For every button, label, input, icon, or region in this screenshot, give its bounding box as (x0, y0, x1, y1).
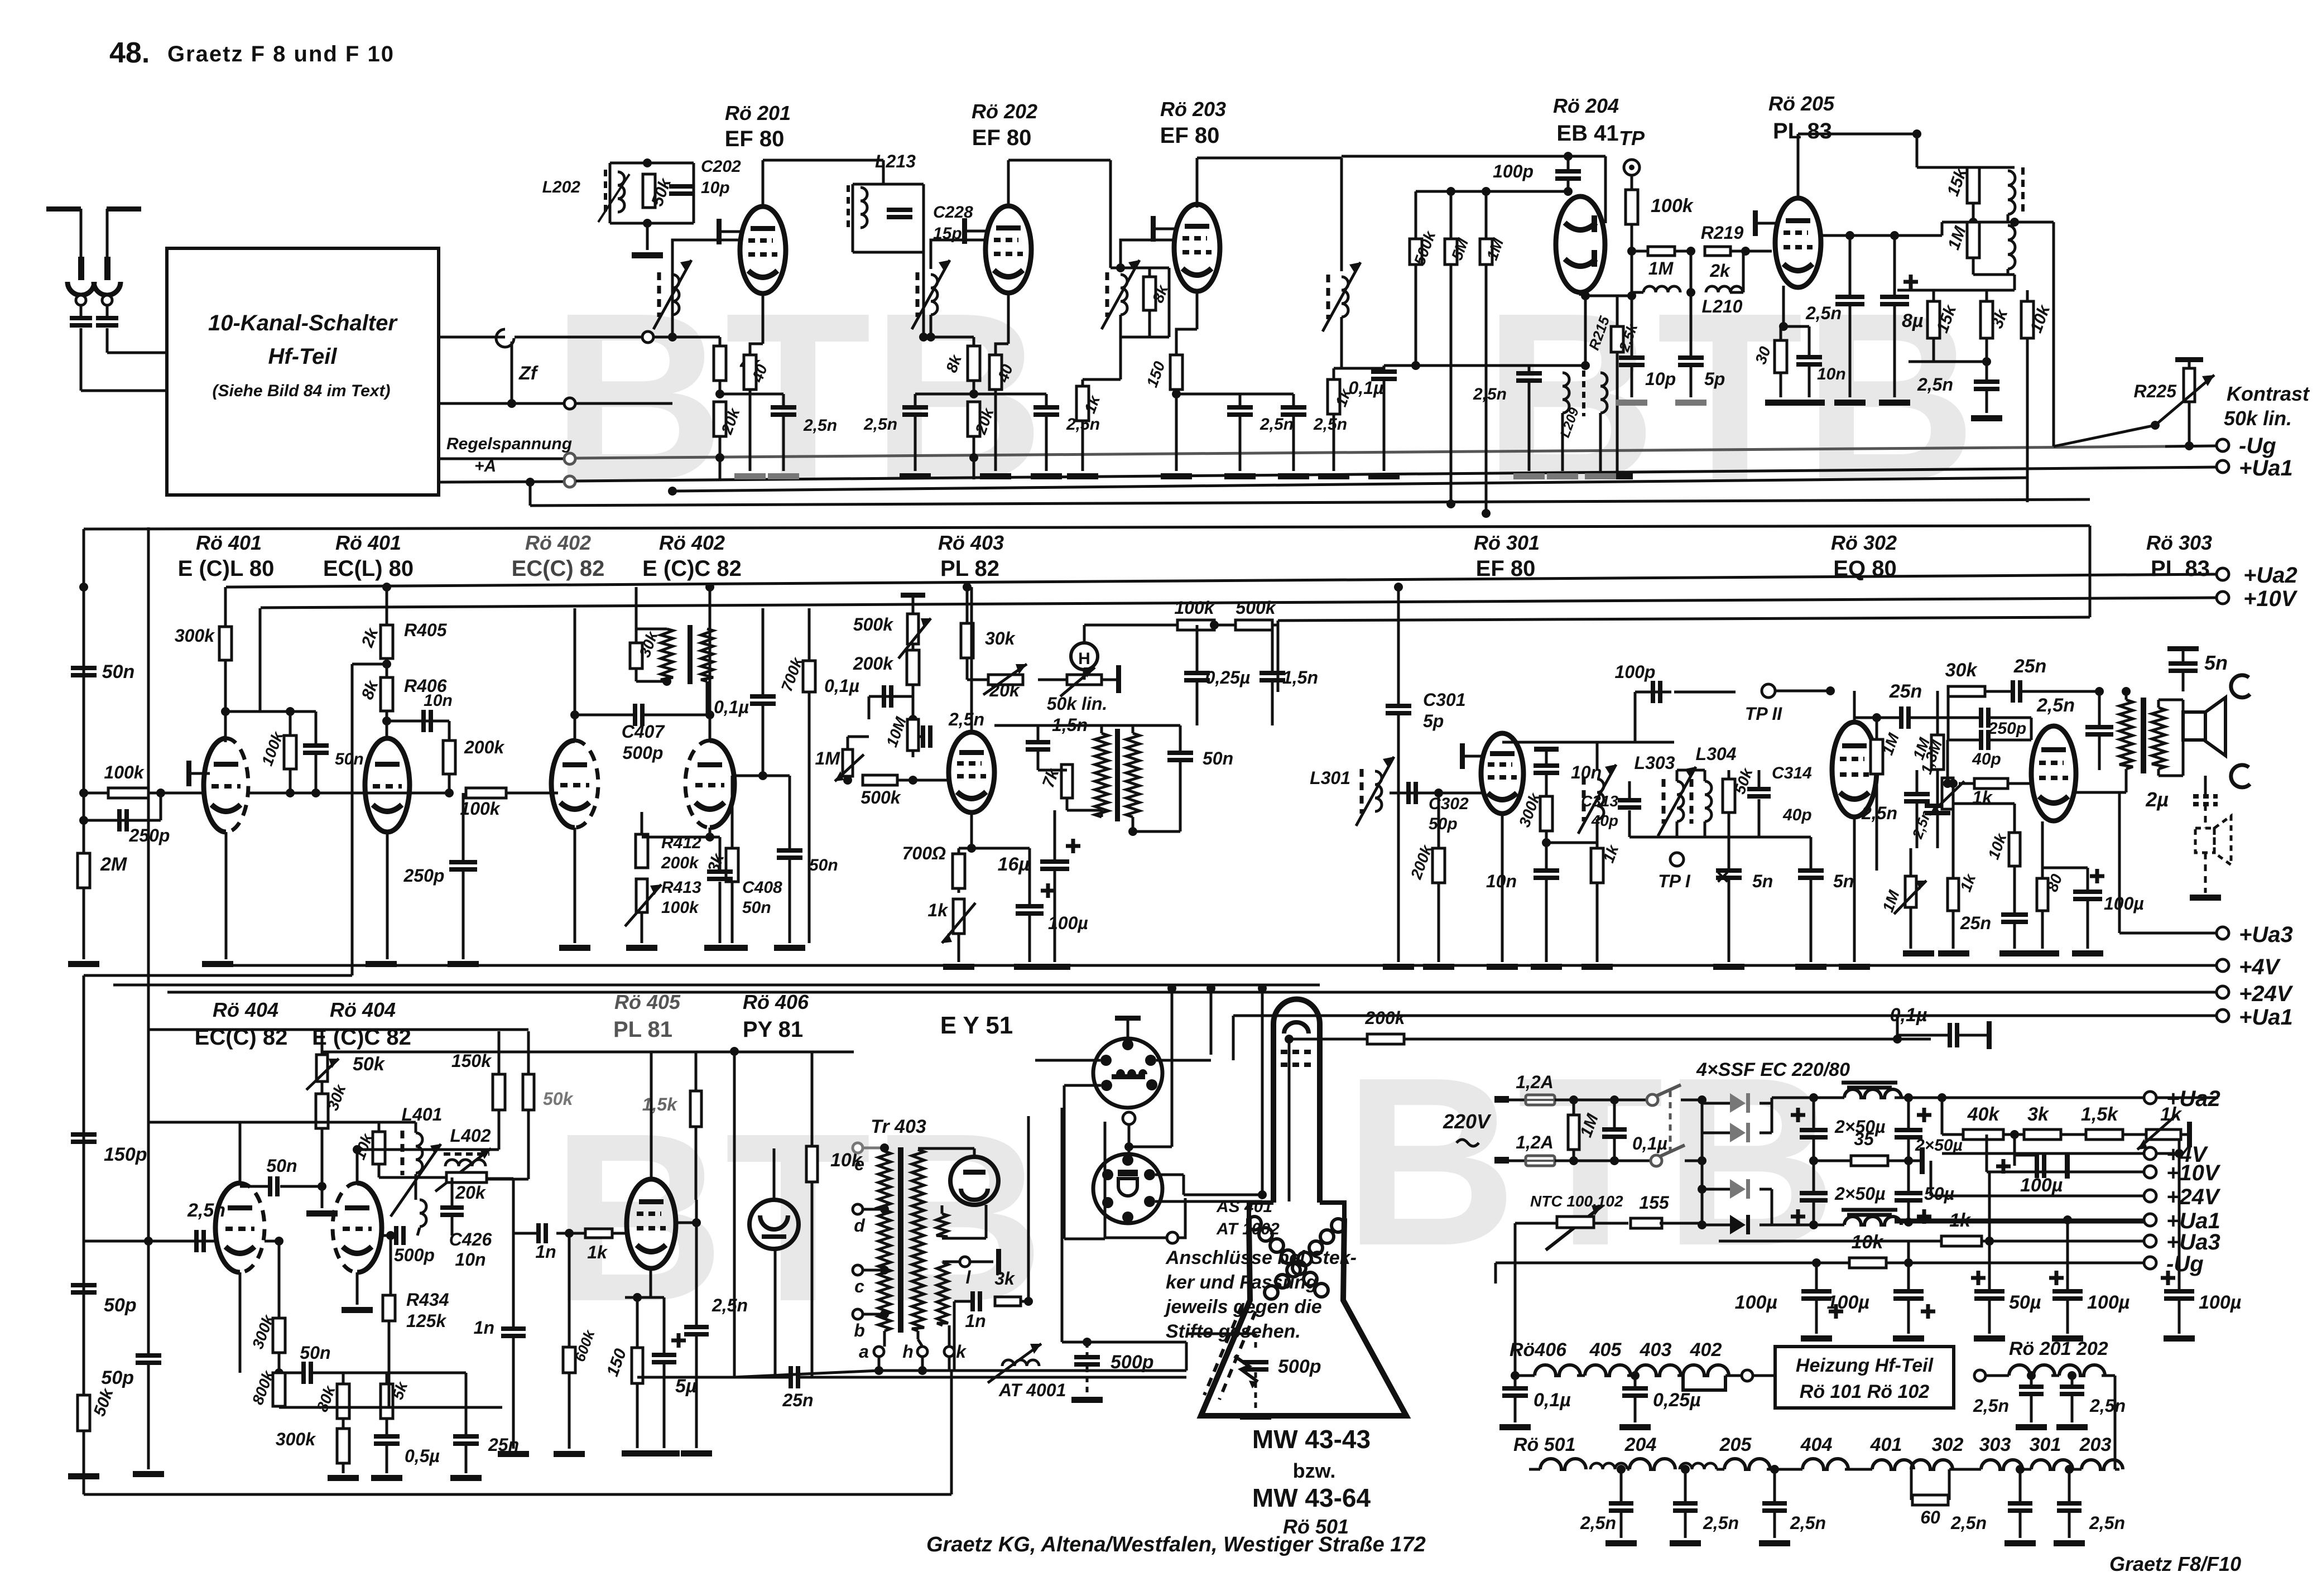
svg-text:2k: 2k (1709, 261, 1731, 281)
svg-text:Tr 403: Tr 403 (871, 1116, 926, 1137)
svg-text:40p: 40p (1782, 806, 1812, 824)
svg-text:1,5k: 1,5k (642, 1094, 678, 1114)
svg-text:1M: 1M (1648, 258, 1674, 278)
top wires 404 (322, 1051, 854, 1054)
svg-text:500k: 500k (853, 614, 894, 634)
divider 40k 3k 1,5k 1k (1938, 1093, 1946, 1102)
svg-text:L303: L303 (1635, 753, 1675, 773)
svg-text:0,1µ: 0,1µ (1534, 1390, 1571, 1411)
svg-text:2,5n: 2,5n (1473, 385, 1507, 403)
svg-text:Zf: Zf (518, 363, 539, 384)
terminal +Ua3 (2118, 792, 2121, 933)
svg-text:H: H (1078, 650, 1090, 668)
grid stub Rö201 (717, 219, 722, 244)
resistor 30k PL82 (966, 587, 969, 623)
resistors 15k 3k 10k (1897, 289, 2015, 292)
svg-text:100k: 100k (1174, 598, 1215, 618)
svg-text:40k: 40k (1967, 1104, 2001, 1125)
socket 2 (1093, 1154, 1162, 1223)
svg-text:100k: 100k (460, 799, 501, 819)
svg-text:100k: 100k (661, 898, 699, 917)
svg-text:+24V: +24V (2166, 1185, 2221, 1209)
cap 0,25µ heater (1631, 1371, 1640, 1380)
svg-text:10n: 10n (424, 691, 453, 710)
sockets (1093, 1039, 1162, 1108)
svg-text:8µ: 8µ (1902, 310, 1924, 331)
svg-text:200k: 200k (464, 737, 505, 757)
svg-text:1M: 1M (815, 748, 841, 768)
svg-text:Rö 401: Rö 401 (196, 531, 262, 554)
cathode resistor 40 (762, 294, 765, 344)
anode wiring Rö203 (1196, 158, 1199, 208)
svg-text:405: 405 (1589, 1339, 1622, 1361)
EB41 left drop (1340, 158, 1343, 271)
svg-text:50k: 50k (543, 1089, 574, 1109)
inner rail and 50p (148, 1028, 528, 1031)
resistor 4k (668, 333, 677, 342)
svg-text:10-Kanal-Schalter: 10-Kanal-Schalter (208, 311, 398, 335)
caps 2,5n heater1 (2027, 1371, 2036, 1380)
svg-text:1n: 1n (965, 1311, 986, 1331)
svg-text:205: 205 (1719, 1434, 1752, 1455)
cap 2,5n stage2b (1045, 394, 1048, 405)
svg-text:60: 60 (1920, 1507, 1940, 1527)
svg-text:C407: C407 (622, 722, 666, 742)
cap 500p dashed (1243, 1360, 1268, 1364)
svg-text:Rö 201: Rö 201 (725, 102, 791, 124)
svg-text:5p: 5p (1423, 711, 1444, 731)
svg-text:EQ 80: EQ 80 (1833, 556, 1896, 581)
svg-text:bzw.: bzw. (1293, 1459, 1336, 1482)
blocking transformer (1095, 733, 1108, 817)
R412 R413 C408 (641, 812, 643, 834)
svg-text:250p: 250p (403, 866, 445, 886)
svg-text:EC(L) 80: EC(L) 80 (323, 556, 414, 581)
pot 1M audio (1905, 876, 1916, 907)
grounds 300 left (1501, 814, 1504, 962)
svg-text:2,5n: 2,5n (1861, 803, 1897, 823)
resistors 100k 500k top (1084, 624, 1278, 627)
resistor 100k TP (1626, 190, 1638, 224)
grid tank Rö201 (671, 269, 674, 337)
terminal l (960, 1257, 970, 1267)
resistor 300k 404 (278, 1241, 281, 1318)
svg-text:50n: 50n (809, 856, 838, 874)
caps 2,5n heater2 (1617, 1465, 1626, 1474)
svg-text:L301: L301 (1310, 768, 1350, 788)
resistor 1k 300 (1596, 843, 1599, 848)
svg-text:403: 403 (1640, 1339, 1672, 1361)
svg-text:10k: 10k (1852, 1232, 1885, 1253)
svg-text:25n: 25n (2013, 656, 2047, 677)
+10V psu line (1986, 1134, 1988, 1172)
svg-text:C408: C408 (742, 878, 782, 897)
svg-text:Graetz KG, Altena/Westfalen, W: Graetz KG, Altena/Westfalen, Westiger St… (926, 1533, 1426, 1556)
terminal +4V (204, 964, 2217, 967)
resistor 10k PY81 (806, 1146, 818, 1182)
grid line Rö401b (248, 792, 449, 795)
svg-text:b: b (854, 1320, 865, 1340)
svg-text:1,2A: 1,2A (1516, 1132, 1554, 1152)
svg-text:50n: 50n (102, 661, 135, 682)
resistor 3k 402 (732, 775, 763, 777)
resistor 1M horizontal (1632, 250, 1648, 253)
svg-text:200k: 200k (661, 854, 699, 872)
pot R225 Kontrast (2175, 357, 2203, 362)
R405 2k (386, 587, 388, 625)
svg-text:2M: 2M (100, 854, 127, 875)
svg-text:2,5n: 2,5n (1790, 1513, 1826, 1533)
svg-text:l: l (966, 1267, 972, 1287)
svg-text:0,1µ: 0,1µ (824, 676, 859, 696)
cap 250p (84, 819, 161, 822)
tube Rö401b (365, 738, 410, 832)
svg-text:Rö 404: Rö 404 (213, 998, 278, 1021)
svg-text:3k: 3k (2027, 1104, 2050, 1125)
right top network 15k/1M coils (1916, 134, 1919, 167)
block 10-Kanal-Schalter Hf-Teil (167, 248, 439, 495)
svg-text:C313: C313 (1581, 792, 1618, 810)
resistor 10M (907, 719, 919, 751)
terminal +Ua1 (2217, 460, 2229, 473)
svg-text:1k: 1k (587, 1242, 608, 1262)
svg-text:1k: 1k (927, 900, 949, 920)
svg-text:100µ: 100µ (1827, 1292, 1869, 1313)
wire Zf lower (439, 402, 564, 405)
+24V psu line (1930, 1161, 1933, 1196)
svg-text:303: 303 (1979, 1434, 2011, 1455)
500p coupling 404b (386, 1231, 395, 1240)
svg-text:R405: R405 (404, 620, 448, 640)
svg-text:R413: R413 (661, 878, 701, 897)
svg-text:200k: 200k (853, 653, 894, 674)
TPI and TPII (1670, 853, 1684, 866)
cap 10n coupling (382, 717, 391, 725)
pot 20k (967, 679, 1023, 681)
svg-text:20k: 20k (455, 1182, 487, 1203)
implosion dashes (1204, 1306, 1242, 1395)
svg-text:2,5n: 2,5n (1805, 303, 1842, 323)
cap 100p (1567, 156, 1570, 169)
caps 5n row (1728, 837, 1730, 868)
svg-text:c: c (854, 1276, 864, 1296)
tube Rö404b (357, 1183, 382, 1272)
svg-text:h: h (902, 1342, 914, 1362)
svg-text:Rö 205: Rö 205 (1768, 92, 1835, 115)
svg-text:700Ω: 700Ω (902, 843, 946, 863)
svg-text:50n: 50n (742, 898, 771, 917)
svg-text:0,25µ: 0,25µ (1653, 1390, 1701, 1411)
svg-text:30k: 30k (1945, 660, 1978, 681)
cathode 40 Rö202 (1007, 294, 1010, 344)
C302 50p (1390, 792, 1429, 795)
output transformer (2119, 700, 2133, 769)
svg-text:500p: 500p (394, 1245, 435, 1265)
mains switch (1647, 1094, 1658, 1105)
svg-text:EF 80: EF 80 (1476, 556, 1536, 581)
svg-text:204: 204 (1624, 1434, 1657, 1455)
pot 50k 404 (316, 1055, 328, 1081)
svg-text:(Siehe Bild 84 im Text): (Siehe Bild 84 im Text) (213, 382, 391, 400)
svg-text:+24V: +24V (2239, 982, 2294, 1006)
svg-text:25n: 25n (1960, 913, 1991, 933)
svg-text:+Ua3: +Ua3 (2166, 1230, 2220, 1254)
wires 300 left (1397, 587, 1400, 704)
tube Rö302 EQ80 (1832, 722, 1877, 817)
antenna 2 (107, 206, 141, 211)
svg-text:50k: 50k (353, 1054, 386, 1075)
svg-text:100µ: 100µ (2087, 1292, 2129, 1313)
NTC line (1514, 1223, 1517, 1376)
svg-text:2,5n: 2,5n (2089, 1513, 2125, 1533)
svg-text:Heizung Hf-Teil: Heizung Hf-Teil (1796, 1355, 1934, 1376)
bottom rail 404 (278, 1406, 281, 1407)
tube Rö402a (551, 741, 575, 828)
resistor 35 (1814, 1160, 1851, 1162)
svg-text:-Ug: -Ug (2166, 1252, 2204, 1276)
long return wire 3 (672, 478, 2027, 491)
cap 0,1µ (1383, 366, 1386, 369)
osc transformer 30k (635, 587, 638, 643)
cap 250p lower (462, 793, 465, 860)
svg-text:2,5n: 2,5n (948, 709, 984, 729)
svg-text:30k: 30k (985, 628, 1016, 648)
speaker (2183, 712, 2205, 740)
feedback wire to lower section (352, 663, 387, 666)
svg-text:100k: 100k (104, 762, 145, 782)
AT4001 (1002, 1360, 1039, 1366)
anode wiring Rö202 (1007, 160, 1010, 208)
svg-text:2,5n: 2,5n (1973, 1396, 2009, 1416)
svg-text:E (C)L 80: E (C)L 80 (178, 556, 275, 581)
svg-text:20k: 20k (989, 680, 1021, 700)
svg-text:L304: L304 (1696, 744, 1737, 764)
svg-text:40p: 40p (1591, 812, 1618, 829)
socket2 loop (1105, 1122, 1185, 1238)
svg-text:k: k (956, 1342, 967, 1362)
svg-text:1k: 1k (2160, 1104, 2183, 1125)
tube Rö402b (710, 741, 734, 828)
resistor 1M psu (1569, 1095, 1578, 1104)
resistor 20k (714, 402, 726, 436)
resistor 200k (448, 721, 451, 741)
svg-text:3k: 3k (994, 1268, 1016, 1289)
svg-text:C426: C426 (449, 1229, 492, 1249)
tube Rö404a (215, 1183, 240, 1272)
Tr403 terminals (853, 1143, 863, 1153)
wire Zf output (439, 336, 505, 339)
caps 150p 50p 50k left column (71, 1132, 97, 1137)
tube Rö303 PL83 audio (2031, 726, 2076, 821)
svg-text:Rö 204: Rö 204 (1553, 94, 1619, 117)
svg-text:Rö 301: Rö 301 (1474, 531, 1540, 554)
svg-text:L213: L213 (875, 151, 916, 171)
svg-text:L210: L210 (1702, 296, 1743, 316)
antenna 1 (46, 206, 81, 211)
rectifier diodes (1701, 1100, 1704, 1225)
dashed speaker (2195, 828, 2214, 853)
svg-text:100µ: 100µ (1735, 1292, 1777, 1313)
speaker clips (2231, 675, 2250, 698)
tube Rö403 PL82 (949, 732, 994, 813)
cap 5n top (2167, 646, 2199, 651)
svg-text:150k: 150k (451, 1051, 492, 1071)
resistor 1k stage3 (1333, 368, 1335, 379)
picture tube MW43 (1273, 999, 1320, 1203)
tube Rö401a ECL80 (204, 738, 226, 832)
svg-text:1,2A: 1,2A (1516, 1072, 1554, 1092)
svg-text:C302: C302 (1429, 795, 1469, 813)
svg-text:5n: 5n (1752, 871, 1773, 891)
svg-text:EF 80: EF 80 (972, 126, 1032, 150)
cap 0,1µ 402 (762, 608, 765, 694)
bus +Ua2 (226, 574, 2218, 587)
svg-text:2,5n: 2,5n (1917, 374, 1953, 395)
cap 2x50µ 2 (1904, 1093, 1913, 1102)
cap 0,5µ (374, 1434, 400, 1439)
top wire EB41 (1342, 155, 1605, 158)
caps 250p 40p (1948, 717, 1979, 719)
-Ug psu line (1496, 1262, 2145, 1265)
left column 50n 2M (79, 583, 88, 592)
svg-text:Hf-Teil: Hf-Teil (268, 344, 338, 369)
svg-text:E (C)C 82: E (C)C 82 (642, 556, 742, 581)
grounds 402 (574, 828, 576, 943)
svg-text:MW 43-43: MW 43-43 (1252, 1425, 1371, 1454)
svg-text:2,5n: 2,5n (712, 1295, 748, 1315)
20k 404 (446, 1172, 487, 1182)
resistor 300k bottom (337, 1429, 349, 1463)
svg-text:25n: 25n (782, 1390, 813, 1410)
svg-text:0,1µ: 0,1µ (1890, 1004, 1927, 1026)
svg-text:500p: 500p (623, 743, 664, 763)
svg-text:PL 83: PL 83 (1773, 119, 1832, 143)
neck shoulders (1249, 1203, 1344, 1218)
C426 10n (440, 1205, 464, 1210)
coil L210 (1690, 251, 1693, 292)
cap 2,5n right300 (1925, 804, 1950, 808)
PL82 cathode (970, 813, 973, 848)
tube Rö301 EF80 (1481, 733, 1523, 814)
H circle (1071, 643, 1098, 670)
svg-text:250p: 250p (129, 825, 170, 845)
svg-text:+4V: +4V (2239, 955, 2281, 979)
svg-text:401: 401 (1870, 1434, 1902, 1455)
resistor 1k audio horiz (1943, 779, 1952, 788)
svg-text:50n: 50n (266, 1156, 297, 1176)
cap 1,5n + 7k + transformer (994, 724, 1180, 727)
svg-text:50p: 50p (1429, 815, 1458, 833)
svg-text:50k lin.: 50k lin. (1047, 694, 1108, 714)
600k resistor (568, 1233, 571, 1347)
1n vert cap (512, 1233, 515, 1326)
svg-text:100µ: 100µ (2020, 1175, 2063, 1196)
cap 25n 2 (2011, 680, 2015, 703)
150k 50k 404 right (493, 1074, 505, 1110)
svg-text:0,1µ: 0,1µ (714, 697, 749, 717)
svg-text:200k: 200k (1364, 1008, 1406, 1028)
resistor 300k (224, 587, 227, 627)
svg-text:C314: C314 (1772, 764, 1812, 782)
svg-text:100µ: 100µ (2104, 893, 2144, 914)
svg-text:a: a (859, 1342, 869, 1362)
svg-text:Kontrast: Kontrast (2227, 382, 2310, 405)
pot 50k lin (1038, 679, 1116, 681)
cathode parts Rö203 (1196, 291, 1199, 329)
R406 8k (386, 658, 388, 677)
cap 25n audio gnd (2001, 912, 2028, 917)
svg-text:2,5n: 2,5n (1313, 415, 1347, 434)
svg-text:Anschlüsse bei Stek-: Anschlüsse bei Stek- (1165, 1247, 1357, 1268)
+Ua1 psu line (1895, 1219, 2145, 1222)
cap 25n 404 (465, 1373, 468, 1434)
svg-text:EB 41: EB 41 (1556, 121, 1618, 146)
svg-text:10p: 10p (701, 179, 730, 197)
cap 2x50µ 3 (1813, 1161, 1815, 1191)
svg-text:+Ua3: +Ua3 (2239, 922, 2293, 947)
cap 2,5n audio (2098, 691, 2101, 725)
svg-text:C202: C202 (701, 157, 741, 176)
svg-text:EC(C) 82: EC(C) 82 (512, 556, 605, 581)
svg-text:+Ua2: +Ua2 (2243, 563, 2297, 588)
svg-text:404: 404 (1800, 1434, 1833, 1455)
svg-text:25n: 25n (1889, 681, 1922, 702)
svg-text:500k: 500k (861, 787, 901, 807)
svg-text:100k: 100k (1651, 195, 1694, 217)
svg-text:R219: R219 (1701, 223, 1744, 243)
svg-text:300k: 300k (276, 1429, 316, 1449)
svg-text:Rö 401: Rö 401 (335, 531, 401, 554)
socket1 wires (1035, 1059, 1100, 1062)
svg-text:Rö 201 202: Rö 201 202 (2009, 1338, 2108, 1359)
svg-text:PL 83: PL 83 (2151, 556, 2210, 581)
svg-text:Rö 203: Rö 203 (1160, 98, 1226, 121)
svg-text:40p: 40p (1972, 750, 2001, 768)
svg-text:Rö 404: Rö 404 (330, 998, 396, 1021)
svg-text:50p: 50p (101, 1367, 134, 1388)
svg-text:2×50µ: 2×50µ (1834, 1184, 1886, 1204)
svg-text:500p: 500p (1278, 1356, 1321, 1377)
tube Rö406 PY81 (749, 1200, 799, 1249)
terminal +24V (167, 991, 2217, 994)
resistor 50k 300 (1723, 779, 1735, 813)
resistor 1k stage2 (1081, 379, 1084, 386)
svg-text:Rö 202: Rö 202 (972, 100, 1037, 123)
svg-text:2,5n: 2,5n (2036, 695, 2075, 716)
svg-text:16µ: 16µ (998, 854, 1030, 875)
svg-text:Rö 303: Rö 303 (2146, 531, 2212, 554)
resistor 1k audio vert (1948, 878, 1959, 911)
svg-text:2µ: 2µ (2145, 788, 2169, 811)
+4V psu line (2178, 1138, 2181, 1153)
svg-text:1k: 1k (1949, 1210, 1972, 1231)
svg-text:e: e (854, 1154, 864, 1174)
svg-text:PL 82: PL 82 (940, 556, 999, 581)
grid line 404 (84, 1240, 215, 1243)
svg-text:5n: 5n (1833, 871, 1854, 891)
pot 1M 500k horiz (843, 749, 853, 776)
svg-text:Rö 302: Rö 302 (1831, 531, 1897, 554)
cap 50n 402 (763, 775, 790, 777)
cap 0,1µ heater (1514, 1376, 1517, 1386)
terminal -Ug (2217, 439, 2229, 451)
svg-text:TP: TP (1619, 127, 1645, 150)
parallel 8k tank3 (1111, 267, 1169, 270)
svg-text:+Ua1: +Ua1 (2239, 456, 2293, 480)
cap 10p (1631, 296, 1633, 355)
svg-text:50µ: 50µ (2009, 1292, 2041, 1313)
-Ug left link (1494, 1263, 1497, 1283)
